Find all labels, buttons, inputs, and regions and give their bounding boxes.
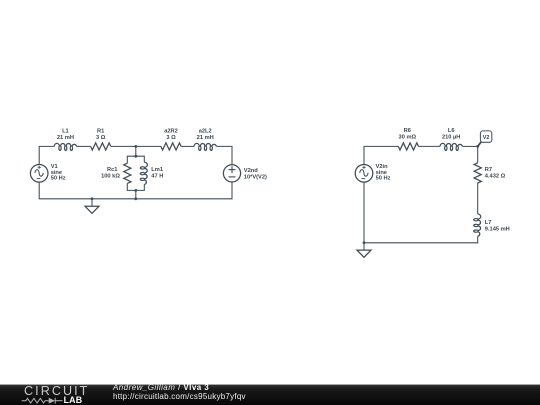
svg-text:V2: V2 xyxy=(483,135,490,141)
V2nd label xyxy=(244,168,267,181)
svg-text:a2R2: a2R2 xyxy=(164,129,178,135)
voltage source V1 xyxy=(30,165,48,183)
L7 label xyxy=(485,220,510,232)
wire: L6 to corner node xyxy=(463,145,478,147)
svg-text:30 mΩ: 30 mΩ xyxy=(399,135,417,141)
node junction dot top xyxy=(134,145,137,148)
wire: a2L2 to V2nd top xyxy=(217,146,233,164)
svg-text:R6: R6 xyxy=(404,128,411,134)
wire: a2R2 to a2L2 xyxy=(181,145,194,147)
footer bar xyxy=(0,384,540,405)
wire: stub bottom bar to bottom net xyxy=(135,190,137,198)
svg-text:4.432 Ω: 4.432 Ω xyxy=(485,174,506,180)
resistor R1 xyxy=(91,143,111,150)
L6 label xyxy=(442,128,460,141)
voltage source V2in xyxy=(355,165,373,183)
svg-text:Lm1: Lm1 xyxy=(151,167,163,173)
inductor L1 xyxy=(54,143,76,150)
resistor Rc1 xyxy=(124,163,131,183)
svg-text:3 Ω: 3 Ω xyxy=(96,135,106,141)
resistor a2R2 xyxy=(161,143,181,150)
resistor R6 xyxy=(398,143,418,150)
node flag V2 xyxy=(478,131,492,147)
wire: R1 to a2R2 through node xyxy=(111,145,161,147)
R1 label xyxy=(96,129,106,141)
svg-text:47 H: 47 H xyxy=(151,174,163,180)
wire: V2nd bottom lead xyxy=(39,182,232,199)
svg-text:L1: L1 xyxy=(62,129,69,135)
wire: V2in top lead xyxy=(364,146,398,164)
footer credits line 1 xyxy=(113,384,209,392)
wire: L7 to bottom and across to V2in xyxy=(364,182,478,243)
voltage source V2nd xyxy=(223,165,240,182)
svg-text:10*V(V2): 10*V(V2) xyxy=(244,175,267,181)
R6 label xyxy=(399,128,417,141)
svg-text:210 µH: 210 µH xyxy=(442,135,460,141)
L1 label xyxy=(57,129,74,141)
node dot bottom net xyxy=(134,197,137,200)
a2L2 label xyxy=(197,129,214,141)
footer credits line 2 xyxy=(113,393,246,401)
svg-text:100 kΩ: 100 kΩ xyxy=(101,174,120,180)
CircuitLab logo resistor-diode glyph xyxy=(20,396,66,405)
svg-text:21 mH: 21 mH xyxy=(197,135,214,141)
V1 label xyxy=(51,164,66,181)
CircuitLab logo text CIRCUIT xyxy=(24,385,89,398)
resistor R7 xyxy=(474,163,481,183)
wire: node to R7 xyxy=(477,146,479,162)
V2in label xyxy=(376,164,391,181)
R7 label xyxy=(485,167,506,179)
Lm1 label xyxy=(151,167,163,179)
svg-text:V2nd: V2nd xyxy=(244,168,258,174)
wire: R7 to L7 xyxy=(477,183,479,214)
wire: stub node to parallel block xyxy=(135,146,137,156)
svg-text:R7: R7 xyxy=(485,167,492,173)
ground symbol left xyxy=(85,199,99,214)
wire: parallel block bottom bar xyxy=(127,183,144,190)
Rc1 label xyxy=(101,167,120,179)
wire: R6 to L6 xyxy=(419,145,441,147)
svg-text:R1: R1 xyxy=(97,129,104,135)
svg-text:a2L2: a2L2 xyxy=(199,129,212,135)
node junction dot V2 xyxy=(476,145,479,148)
svg-text:50 Hz: 50 Hz xyxy=(51,176,66,182)
ground symbol right xyxy=(357,243,371,257)
node dot right ground junction xyxy=(363,241,366,244)
wire: parallel block top bar xyxy=(127,156,144,163)
a2R2 label xyxy=(164,129,178,141)
svg-text:L6: L6 xyxy=(448,128,455,134)
inductor L6 xyxy=(440,143,463,150)
svg-text:9.145 mH: 9.145 mH xyxy=(485,227,510,233)
CircuitLab logo text LAB xyxy=(64,396,83,405)
svg-text:L7: L7 xyxy=(485,220,492,226)
node dot top bar xyxy=(134,155,137,158)
svg-text:Rc1: Rc1 xyxy=(107,167,117,173)
svg-text:21 mH: 21 mH xyxy=(57,135,74,141)
wire: L1 to R1 xyxy=(77,145,91,147)
inductor a2L2 xyxy=(194,143,217,150)
svg-text:3 Ω: 3 Ω xyxy=(166,135,176,141)
wire: V1 top lead up and to L1 xyxy=(39,146,54,164)
node dot ground junction xyxy=(91,197,94,200)
node dot bottom bar xyxy=(134,189,137,192)
inductor Lm1 xyxy=(140,162,147,185)
inductor L7 xyxy=(474,214,481,237)
svg-text:50 Hz: 50 Hz xyxy=(376,176,391,182)
